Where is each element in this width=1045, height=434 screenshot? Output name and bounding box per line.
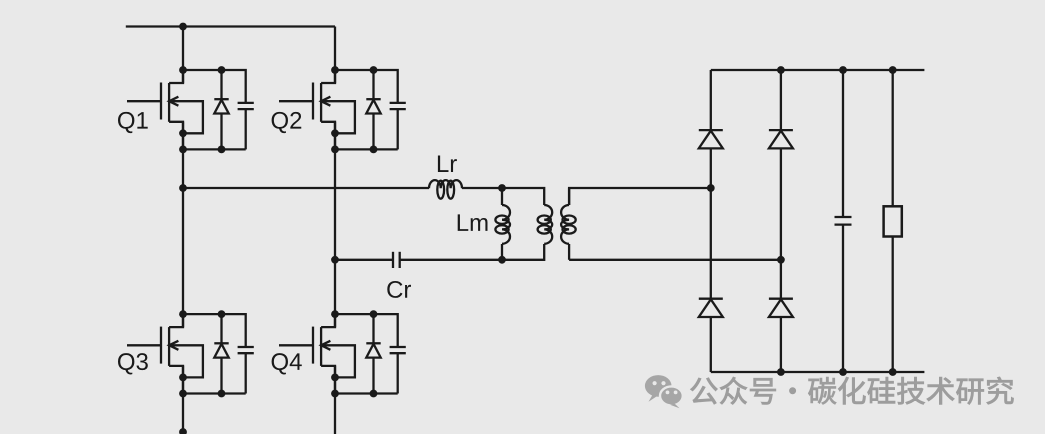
snubber capacitor of Q3 — [238, 347, 254, 394]
watermark text 公众号·碳化硅技术研究 — [691, 377, 1014, 405]
inductor Lm (magnetizing) — [501, 188, 503, 205]
wire: bridge midpoint A to resonant tank (upper) — [183, 187, 429, 189]
label Lr — [438, 155, 457, 172]
wire: right bridge leg (Q2/Q4 column) — [334, 27, 336, 84]
node: Q3 diode anode-rail junction — [218, 310, 226, 318]
transistor Q4 — [279, 314, 398, 393]
node: Q4 diode anode-rail junction — [370, 310, 378, 318]
wire: Cr to transformer primary bottom — [400, 244, 545, 260]
wire: bridge midpoint B to Cr (lower tank wire) — [335, 259, 393, 261]
node: Q1 source junction — [179, 146, 187, 154]
transistor Q1 — [127, 70, 246, 149]
node: Q2 body-source junction — [331, 129, 339, 137]
diode D4 — [769, 299, 793, 317]
node: Q1 diode cathode-rail junction — [218, 146, 226, 154]
diode D1 — [699, 130, 723, 148]
node: top rail / load resistor — [889, 66, 897, 74]
snubber capacitor of Q4 — [390, 347, 406, 394]
node B: right leg / lower tank wire — [331, 256, 339, 264]
body diode of Q4 — [366, 314, 380, 393]
wire: output bottom rail — [711, 371, 925, 373]
wire: secondary bottom to rectifier — [569, 259, 781, 261]
diode D2 — [769, 130, 793, 148]
node: Q2 diode anode-rail junction — [370, 66, 378, 74]
node: Q1 drain junction — [179, 66, 187, 74]
label Lm — [458, 214, 488, 231]
node: Q3 source junction — [179, 390, 187, 398]
node: bottom rail / output cap — [839, 368, 847, 376]
node: Q3 diode cathode-rail junction — [218, 390, 226, 398]
node: Q3 drain junction — [179, 310, 187, 318]
load resistor — [892, 70, 894, 372]
node: Q2 source junction — [331, 146, 339, 154]
node: secondary top / rectifier leg A — [707, 184, 715, 192]
node: bottom rail / leg B — [777, 368, 785, 376]
diode D3 — [699, 299, 723, 317]
node: top rail / leg B — [777, 66, 785, 74]
wire: secondary top to rectifier — [569, 188, 711, 205]
label Q1 — [118, 112, 148, 133]
wire: top DC bus rail — [126, 25, 335, 27]
wire: Lr to transformer primary top — [462, 188, 544, 205]
label Q3 — [118, 353, 148, 374]
node: top rail / output cap — [839, 66, 847, 74]
node: Q4 diode cathode-rail junction — [370, 390, 378, 398]
snubber capacitor of Q2 — [390, 103, 406, 149]
label Cr — [387, 281, 411, 298]
body diode of Q3 — [214, 314, 228, 393]
wire: rectifier leg B — [780, 70, 782, 372]
output capacitor — [835, 70, 852, 372]
inductor Lr — [429, 180, 462, 188]
node: Lm bottom junction — [498, 256, 506, 264]
node: Q2 drain junction — [331, 66, 339, 74]
transistor Q3 — [127, 314, 246, 393]
node: Q2 diode cathode-rail junction — [370, 146, 378, 154]
node: Q4 body-source junction — [331, 374, 339, 382]
wire: rectifier leg A — [710, 70, 712, 372]
body diode of Q2 — [366, 70, 380, 149]
node: secondary bottom / rectifier leg B — [777, 256, 785, 264]
transformer secondary winding — [568, 188, 570, 205]
watermark WeChat icon — [645, 375, 683, 408]
capacitor Cr — [393, 252, 400, 268]
label Q4 — [272, 353, 302, 374]
node: Q3 body-source junction — [179, 374, 187, 382]
node: left leg bottom junction — [179, 428, 187, 434]
node: Q1 diode anode-rail junction — [218, 66, 226, 74]
body diode of Q1 — [214, 70, 228, 149]
wire: left bridge leg (Q1/Q3 column) — [182, 27, 184, 84]
node: top rail / left leg junction — [179, 23, 187, 31]
transistor Q2 — [279, 70, 398, 149]
node: Q4 source junction — [331, 390, 339, 398]
node A: left leg / upper tank wire — [179, 184, 187, 192]
node: bottom rail / load resistor — [889, 368, 897, 376]
wire: output top rail — [711, 69, 925, 71]
node: Lm top junction — [498, 184, 506, 192]
label Q2 — [272, 112, 302, 133]
node: Q1 body-source junction — [179, 129, 187, 137]
node: Q4 drain junction — [331, 310, 339, 318]
snubber capacitor of Q1 — [238, 103, 254, 149]
transformer primary winding — [543, 204, 545, 206]
